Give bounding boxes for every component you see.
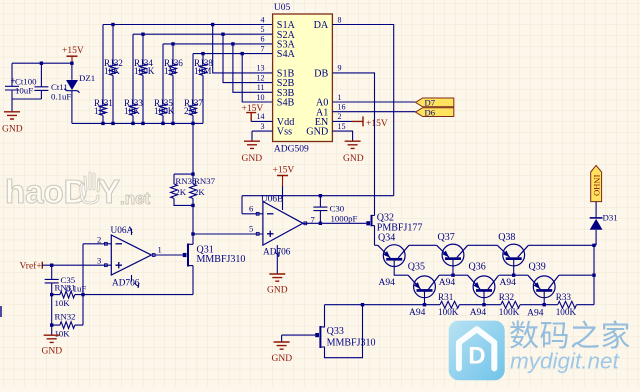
wire DA pin 8 down to feedback node <box>332 25 393 196</box>
svg-text:16: 16 <box>338 103 346 112</box>
wire U06B output to Q32 gate <box>303 222 366 224</box>
junction dots C30 <box>319 194 322 225</box>
wire Q31 drain up to pin5 node <box>192 234 194 244</box>
wire top rail Q34 to Q37 <box>409 244 437 246</box>
svg-text:Q36: Q36 <box>469 262 486 273</box>
resistor RJ33 10K <box>124 34 143 123</box>
svg-text:AD706: AD706 <box>263 248 291 258</box>
svg-text:100K: 100K <box>134 66 155 76</box>
wire net S3A <box>163 43 273 45</box>
capacitor C30 1000pF <box>313 196 357 224</box>
wire right vertical to D31 <box>593 245 595 304</box>
wire Q37 base to mid rail <box>452 258 454 275</box>
svg-text:U06B: U06B <box>261 195 283 205</box>
svg-text:A94: A94 <box>379 278 396 288</box>
svg-text:GND: GND <box>272 354 293 364</box>
svg-text:1000pF: 1000pF <box>331 214 358 224</box>
transistor Q37 A94 PNP <box>437 232 468 288</box>
wire net S1A <box>103 24 273 26</box>
ground GND below RN32 <box>42 335 63 356</box>
svg-text:10K: 10K <box>104 66 120 76</box>
svg-text:10: 10 <box>257 93 265 102</box>
ground GND below U06B <box>267 274 288 296</box>
svg-text:AD706: AD706 <box>112 279 140 289</box>
wire rail down to RN36 RN37 <box>174 123 193 184</box>
junction dots resistor network <box>40 23 244 125</box>
transistor Q38 A94 PNP <box>497 232 528 288</box>
wire mid rail Q36 to Q39 <box>499 274 528 276</box>
wire Q33 gate to ground <box>282 335 316 342</box>
op-amp U06A AD706 <box>97 226 162 289</box>
svg-text:8: 8 <box>338 15 342 24</box>
wire Vss pin 3 to ground <box>252 131 273 141</box>
svg-text:GND: GND <box>42 347 63 357</box>
svg-text:10K: 10K <box>55 329 71 339</box>
stray mark left edge <box>0 306 2 317</box>
capacitor Ct100 10uF electrolytic <box>5 63 37 99</box>
svg-text:1: 1 <box>158 245 162 255</box>
svg-text:10M: 10M <box>194 66 211 76</box>
resistor RN37 2K <box>190 176 216 198</box>
wire Q38 base to mid rail <box>513 258 515 275</box>
svg-text:100K: 100K <box>499 307 520 317</box>
svg-text:9: 9 <box>338 64 342 73</box>
ground GND at Q33 gate <box>272 342 293 364</box>
svg-text:RN32: RN32 <box>55 312 76 322</box>
svg-text:+15V: +15V <box>366 119 388 129</box>
svg-text:.net: .net <box>120 189 151 208</box>
svg-text:GND: GND <box>242 154 263 164</box>
resistor R33 100K <box>556 292 577 317</box>
wire caps join to ground <box>12 99 41 112</box>
wire Q31 source down to feedback <box>192 266 194 295</box>
svg-text:Q34: Q34 <box>378 233 395 244</box>
svg-text:12: 12 <box>257 73 265 82</box>
svg-text:2K: 2K <box>175 187 186 197</box>
svg-text:11: 11 <box>257 83 265 92</box>
wire A0 pin 1 to D7 flag <box>332 101 415 103</box>
wire top rail Q38 to D31 node <box>528 244 594 246</box>
transistor Q32 PMBFJ177 p-JFET <box>366 213 422 246</box>
wire Q31 node to U06B pin 5 <box>193 233 263 235</box>
svg-text:S4A: S4A <box>277 49 296 60</box>
ground GND below chip right <box>343 141 364 164</box>
junction dots RN network <box>191 172 194 235</box>
svg-text:7: 7 <box>261 44 265 53</box>
junction dots transistor array <box>361 244 596 307</box>
wire Q34 base to mid rail <box>394 258 408 275</box>
wire net S4A <box>193 53 273 55</box>
svg-text:1: 1 <box>338 93 342 102</box>
resistor RJ32 10K <box>104 25 123 124</box>
svg-text:Q38: Q38 <box>498 232 515 243</box>
svg-text:R33: R33 <box>556 292 572 302</box>
wire bottom rail segment 1 <box>325 304 441 306</box>
net label flag D7 <box>416 98 454 108</box>
svg-text:Q37: Q37 <box>438 232 455 243</box>
power +15V above U06B <box>273 166 295 187</box>
resistor R31 100K <box>438 292 459 317</box>
svg-text:2M: 2M <box>184 106 197 116</box>
ground GND below chip left <box>242 141 263 164</box>
svg-text:D6: D6 <box>425 107 436 117</box>
power port Vref+ <box>20 261 43 272</box>
svg-text:U05: U05 <box>274 3 291 13</box>
wire S1A to pin13 S1B <box>213 25 273 73</box>
wire GND pin 15 to ground <box>332 131 352 141</box>
resistor RJ38 10M <box>194 54 213 124</box>
resistor R32 100K <box>499 292 520 317</box>
watermark mydigit.net logo <box>449 320 631 380</box>
wire S3A to pin11 S3B <box>233 44 273 92</box>
svg-text:Q35: Q35 <box>408 262 425 273</box>
svg-text:A94: A94 <box>527 309 544 319</box>
power +15V at Vdd pin 14 <box>242 104 273 121</box>
svg-text:MMBFJ310: MMBFJ310 <box>327 338 376 349</box>
svg-text:4: 4 <box>261 15 265 24</box>
svg-text:A94: A94 <box>439 278 456 288</box>
svg-text:DA: DA <box>314 20 329 31</box>
wire bottom rail segment 2 <box>459 304 500 306</box>
svg-text:1K: 1K <box>94 106 106 116</box>
net label flag D6 <box>416 107 454 117</box>
svg-text:100K: 100K <box>154 106 175 116</box>
wire DB pin 9 down to Q32 drain <box>332 73 374 216</box>
diode D31 <box>590 202 618 246</box>
resistor RJ36 1M <box>164 44 183 124</box>
svg-text:S4B: S4B <box>277 98 295 109</box>
svg-text:10K: 10K <box>55 298 71 308</box>
transistor Q34 A94 PNP <box>378 233 409 289</box>
svg-text:15: 15 <box>338 122 346 131</box>
svg-text:+15V: +15V <box>273 166 295 176</box>
wire top rail Q37 to Q38 <box>468 244 498 246</box>
svg-text:C30: C30 <box>330 204 345 214</box>
wire A1 pin 16 to D6 flag <box>332 111 415 113</box>
svg-text:+15V: +15V <box>242 104 264 114</box>
wire Q35 base to bottom rail <box>424 290 426 305</box>
wire net S2A <box>133 33 273 35</box>
svg-text:5: 5 <box>249 224 253 234</box>
svg-text:A94: A94 <box>409 308 426 318</box>
resistor RN31 10K <box>52 283 83 309</box>
svg-text:Ct11: Ct11 <box>51 82 68 92</box>
zener diode DZ1 <box>65 63 96 123</box>
ground GND below caps <box>2 112 23 135</box>
resistor RJ35 100K <box>154 44 175 124</box>
svg-text:+15V: +15V <box>62 46 84 56</box>
svg-text:100K: 100K <box>556 307 577 317</box>
capacitor C35 <box>45 265 87 294</box>
wire bottom rail segment 3 <box>520 304 558 306</box>
svg-text:Q39: Q39 <box>529 262 546 273</box>
svg-text:R32: R32 <box>499 292 515 302</box>
wire feedback to RN31 node <box>83 294 193 296</box>
wire S4A to pin10 S4B <box>242 54 272 102</box>
svg-text:ADG509: ADG509 <box>274 145 309 155</box>
wire Q36 base to bottom rail <box>483 290 485 305</box>
svg-text:mydigit.net: mydigit.net <box>510 349 621 374</box>
resistor RJ37 2M <box>184 54 203 124</box>
svg-text:Q33: Q33 <box>327 326 344 337</box>
transistor Q31 MMBFJ310 n-JFET <box>183 244 246 267</box>
net port flag INHO <box>591 165 603 201</box>
svg-text:U06A: U06A <box>111 226 134 236</box>
capacitor Ct11 0.1uF <box>34 63 71 101</box>
svg-text:MMBFJ310: MMBFJ310 <box>197 254 246 265</box>
svg-text:INHO: INHO <box>592 175 602 196</box>
op-amp U05 ADG509 multiplexer chip <box>257 3 346 155</box>
resistor RN32 10K <box>52 312 83 339</box>
svg-text:2K: 2K <box>194 187 205 197</box>
resistor RN36 2K <box>171 176 197 198</box>
wire Q39 base to bottom rail <box>543 290 545 305</box>
svg-text:3: 3 <box>261 122 265 131</box>
wire C35 node down to RN32 and ground <box>51 295 53 335</box>
svg-text:haoD: haoD <box>5 173 88 210</box>
power +15V at EN pin 2 <box>332 116 387 129</box>
svg-text:A94: A94 <box>470 308 487 318</box>
watermark haoDIY.net <box>5 173 151 210</box>
svg-text:DZ1: DZ1 <box>79 73 95 83</box>
svg-text:Y: Y <box>98 173 120 210</box>
svg-text:100K: 100K <box>438 307 459 317</box>
wire top rail Q32 to Q34 <box>375 244 378 246</box>
svg-text:2: 2 <box>97 235 101 245</box>
svg-text:0.1uF: 0.1uF <box>51 92 71 102</box>
svg-text:A94: A94 <box>500 278 517 288</box>
svg-text:RN37: RN37 <box>194 176 216 186</box>
wire feedback vertical at x83 <box>82 244 84 325</box>
wire mid rail Q35 to Q36 <box>439 274 468 276</box>
wire U06B pin 6 feedback loop <box>242 196 394 214</box>
resistor RJ34 100K <box>134 34 155 123</box>
svg-text:10uF: 10uF <box>15 86 33 96</box>
transistor Q35 A94 PNP <box>408 262 439 319</box>
svg-text:R31: R31 <box>438 292 454 302</box>
svg-text:D31: D31 <box>603 213 618 223</box>
svg-text:5: 5 <box>261 25 265 34</box>
transistor Q36 A94 PNP <box>468 262 499 319</box>
svg-text:1M: 1M <box>164 66 177 76</box>
svg-text:GND: GND <box>306 127 328 138</box>
svg-text:10K: 10K <box>124 106 140 116</box>
svg-text:D7: D7 <box>425 98 436 108</box>
svg-text:GND: GND <box>343 154 364 164</box>
wire Vref+ to op-amp pin 3 <box>42 264 111 266</box>
wire U06A output to Q31 gate <box>151 254 182 256</box>
op-amp U06B AD706 <box>249 186 316 274</box>
svg-text:6: 6 <box>261 35 265 44</box>
svg-text:GND: GND <box>267 286 288 296</box>
transistor Q39 A94 PNP <box>527 262 559 319</box>
wire pin 2 inverting input <box>83 243 111 245</box>
junction dots Vref divider <box>50 264 85 327</box>
svg-text:RN31: RN31 <box>55 283 76 293</box>
wire RN36 RN37 bottoms join <box>174 198 193 234</box>
power +15V supply top-left <box>62 46 84 63</box>
svg-text:2: 2 <box>338 112 342 121</box>
svg-text:6: 6 <box>249 204 254 214</box>
svg-text:Vss: Vss <box>277 127 292 138</box>
wire S2A to pin12 S2B <box>223 34 273 82</box>
svg-text:13: 13 <box>257 64 265 73</box>
wire mid rail Q39 to D31 node <box>559 274 594 276</box>
resistor RJ31 1K <box>94 25 113 124</box>
wire bottom rail of resistor network <box>72 122 203 124</box>
wire +15V rail to caps <box>12 62 72 64</box>
svg-text:GND: GND <box>2 125 23 135</box>
svg-text:DB: DB <box>314 69 328 80</box>
svg-text:Vref+: Vref+ <box>20 261 42 272</box>
transistor Q33 MMBFJ310 n-JFET <box>315 305 375 358</box>
svg-text:3: 3 <box>97 256 101 266</box>
svg-text:D: D <box>468 343 485 370</box>
wire bottom rail segment 4 <box>577 304 595 306</box>
